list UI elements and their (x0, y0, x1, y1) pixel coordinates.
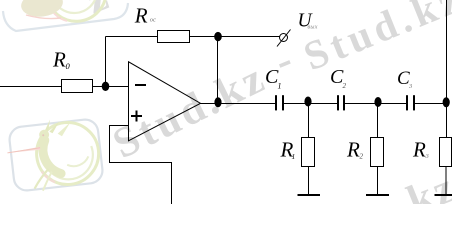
capacitor C1 plates (275, 95, 277, 110)
svg-text:R: R (134, 3, 148, 27)
svg-text:kz: kz (401, 163, 452, 204)
wire right rail vertical (446, 0, 448, 138)
wire node B down to output node (217, 37, 219, 104)
wire R2 to ground (377, 167, 379, 196)
wire R3 to ground (445, 167, 447, 196)
resistor R0 (62, 80, 93, 93)
op-amp plus label (131, 115, 142, 117)
svg-text:вых: вых (308, 25, 318, 31)
svg-text:2: 2 (343, 82, 347, 90)
svg-text:1: 1 (292, 152, 296, 161)
node A junction dot (102, 82, 110, 91)
op-amp U1 triangle (129, 62, 201, 141)
resistor Roc (158, 31, 190, 43)
node OUT junction dot (214, 97, 221, 107)
wire R1 to ground (308, 167, 310, 196)
terminal Uout slash (277, 30, 291, 47)
svg-text:3: 3 (425, 153, 430, 160)
wire C3 to right rail (415, 103, 447, 105)
svg-text:Stud.kz: Stud.kz (297, 0, 452, 79)
node 3 junction dot (443, 97, 450, 107)
svg-text:R: R (346, 138, 360, 162)
node 1 junction dot (304, 97, 311, 107)
ground 2 (366, 194, 389, 196)
resistor R1 (302, 138, 315, 167)
resistor R3 (440, 138, 452, 167)
node 2 junction dot (374, 97, 381, 107)
capacitor C3 plates (406, 95, 408, 110)
svg-text:ос: ос (150, 16, 156, 23)
wire R0 to op-amp inverting input (92, 86, 129, 88)
resistor R2 (371, 138, 384, 167)
svg-text:0: 0 (66, 61, 71, 71)
wire C1 to C2 (284, 103, 337, 105)
wire node 1 down to R1 (308, 104, 310, 138)
svg-text:2: 2 (360, 153, 364, 161)
wire C2 to C3 (345, 103, 406, 105)
svg-text:1: 1 (278, 82, 282, 91)
svg-text:Stud.kz: Stud.kz (106, 54, 274, 168)
wire output node to C1 (201, 103, 276, 105)
node B junction dot (214, 32, 222, 41)
op-amp minus label (135, 84, 146, 86)
terminal Uout circle (280, 34, 288, 42)
svg-text:R: R (412, 138, 426, 162)
svg-text:R: R (52, 48, 66, 72)
capacitor C2 plates (337, 95, 339, 110)
ground 3 (435, 194, 452, 196)
ground 1 (298, 194, 321, 196)
wire feedback top right to output terminal (190, 36, 280, 38)
wire input (0, 86, 62, 88)
wire feedback vertical (105, 37, 107, 87)
wire op-amp noninverting input loop (110, 126, 172, 205)
wire node 2 down to R2 (377, 104, 379, 138)
svg-text:3: 3 (408, 83, 413, 90)
wire feedback top left (106, 36, 159, 38)
